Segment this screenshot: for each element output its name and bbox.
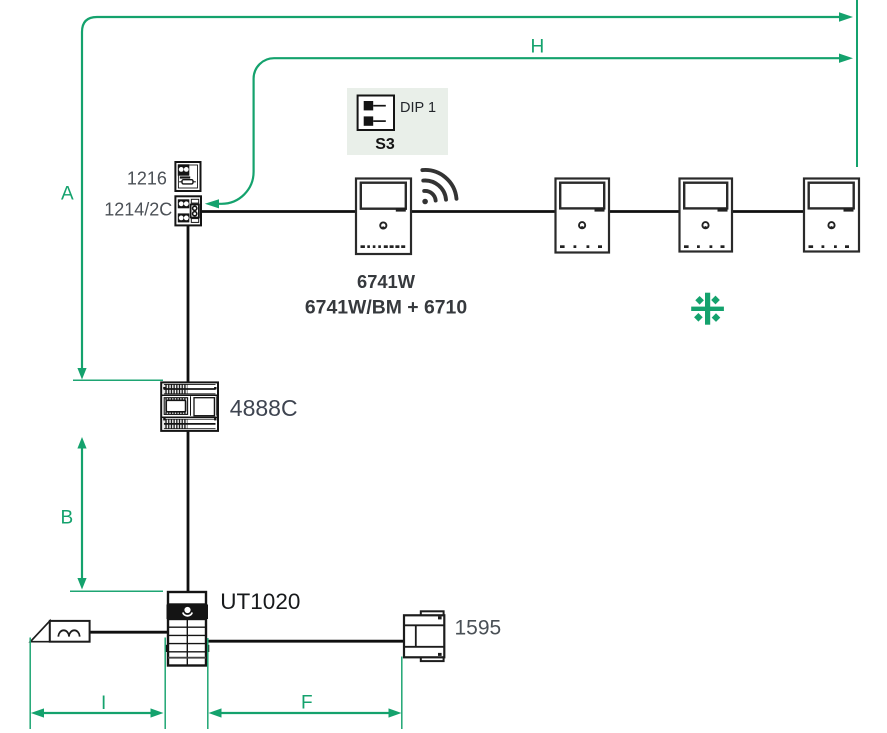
wire: entrance panel to UT1020 (89, 631, 169, 634)
DIP switch S3 box (358, 96, 394, 131)
extension line UT1020 right (207, 638, 209, 729)
dimension A right arrowhead (839, 12, 853, 21)
svg-text:I: I (101, 693, 106, 714)
dimension H path (219, 58, 840, 204)
svg-text:6741W/BM + 6710: 6741W/BM + 6710 (305, 296, 467, 318)
extension line entrance panel (29, 638, 31, 730)
dimension B (81, 448, 83, 579)
device 1595 (404, 611, 444, 661)
monitor 6741W unit 1 (356, 179, 411, 255)
svg-text:S3: S3 (375, 136, 395, 153)
DIP switch lever 2 (364, 116, 374, 125)
wire: vertical riser lower (187, 430, 190, 593)
svg-text:1216: 1216 (127, 169, 167, 189)
extension line UT1020 left (164, 638, 166, 730)
monitor unit 4 (804, 179, 859, 252)
monitor unit 3 (680, 179, 733, 252)
dimension H left arrowhead (205, 199, 219, 208)
svg-text:UT1020: UT1020 (220, 589, 300, 614)
monitor unit 2 (556, 179, 610, 253)
svg-text:4888C: 4888C (230, 395, 298, 421)
dimension F (221, 712, 390, 714)
svg-text:1214/2C: 1214/2C (104, 200, 172, 220)
termination icon (691, 293, 724, 325)
extension line 1595 (401, 657, 403, 730)
dimension A down arrowhead (77, 368, 86, 380)
svg-text:B: B (61, 508, 74, 529)
extension line 4888C bottom (70, 590, 163, 592)
wire: horizontal riser bus (199, 210, 805, 213)
wire: UT1020 to 1595 (207, 640, 405, 643)
wifi icon (422, 167, 456, 201)
entrance speaker module (30, 621, 89, 642)
svg-text:A: A (61, 184, 74, 205)
DIP switch lever 1 (364, 101, 374, 110)
wire: vertical riser upper (187, 224, 190, 382)
right vertical dimension boundary line (856, 0, 858, 167)
dimension A path (82, 17, 840, 368)
device UT1020 (165, 592, 210, 666)
extension line 4888C top (73, 379, 163, 381)
svg-text:F: F (301, 693, 313, 714)
svg-text:1595: 1595 (455, 616, 502, 639)
svg-text:DIP 1: DIP 1 (400, 100, 436, 116)
svg-text:6741W: 6741W (357, 271, 416, 292)
device 1214/2C (175, 196, 201, 225)
device 4888C (161, 382, 218, 431)
dimension H right arrowhead (839, 54, 853, 63)
svg-text:H: H (531, 37, 545, 58)
device 1216 (175, 162, 200, 191)
DIP switch background panel (347, 88, 448, 155)
dimension I (42, 712, 152, 714)
